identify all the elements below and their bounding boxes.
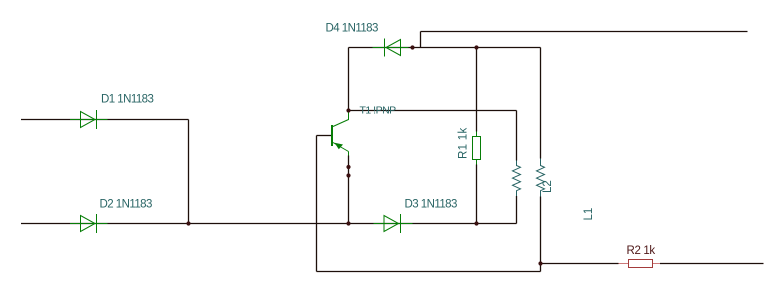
svg-text:R2 1k: R2 1k	[627, 245, 656, 257]
wire: D1 net horizontal y=119.5	[21, 32, 764, 272]
wire: base net vertical x=316.5	[316, 136, 318, 272]
diode D1	[70, 110, 108, 129]
svg-text:D2 1N1183: D2 1N1183	[100, 199, 153, 211]
diode D2	[70, 214, 108, 233]
diode D4 (pointing left)	[373, 39, 409, 57]
wire: top rail y=31.5	[421, 31, 748, 33]
diode D3	[374, 214, 413, 233]
wire: D4 net right vertical down to L1 coil top	[540, 48, 542, 159]
wire: T1 net horizontal y=110.5	[349, 110, 517, 112]
inductor L2 (left coil)	[513, 161, 521, 197]
wire: riser to top rail	[420, 32, 422, 48]
emitter arrow	[335, 143, 344, 150]
junction dot emitter b	[346, 173, 350, 177]
wire: right vertical x=540.5 from bottom net up to L1 coil bottom	[540, 197, 542, 272]
junction dot emitter bottom	[346, 221, 350, 225]
wire: base net bottom horizontal y=271.5	[317, 271, 541, 273]
resistor R1	[473, 132, 481, 165]
wire: R2 net left segment	[541, 263, 619, 265]
junction dot R1 top	[474, 45, 478, 49]
resistor R2 (highlighted red)	[619, 263, 661, 265]
svg-text:L1: L1	[583, 208, 595, 221]
wire: main bottom net turn up to L2 coil bottom	[516, 196, 518, 224]
inductor L1 (right coil)	[537, 159, 545, 197]
wire: R1 top vertical	[476, 48, 478, 132]
base bar	[331, 125, 333, 146]
svg-text:D3 1N1183: D3 1N1183	[405, 199, 458, 211]
wire: T1 base wire	[317, 135, 332, 137]
junction dot D4 anode	[410, 45, 414, 49]
wire: R1 bottom vertical	[476, 165, 478, 224]
svg-text:D4 1N1183: D4 1N1183	[326, 23, 379, 35]
wire: D4 net horizontal y=47.5	[349, 47, 541, 49]
collector pin	[333, 111, 349, 127]
emitter pin	[348, 152, 350, 156]
wire: R2 net right segment	[660, 263, 764, 265]
svg-text:R1 1k: R1 1k	[458, 127, 470, 159]
junction dot T1 collector	[346, 108, 350, 112]
junction dot D1/D2	[186, 221, 190, 225]
junction dot R2 left	[538, 261, 542, 265]
transistor T1 (PNP)	[332, 111, 349, 156]
svg-text:D1 1N1183: D1 1N1183	[101, 94, 154, 106]
junction dot emitter a	[346, 165, 350, 169]
wire: D4 net left vertical down to T1 collector junction	[348, 48, 350, 111]
svg-text:T1 !PNP: T1 !PNP	[360, 105, 397, 117]
wire: D1 net vertical x=188.5	[188, 120, 190, 224]
wire: T1 emitter net down to bottom net	[348, 156, 350, 224]
emitter diagonal	[333, 143, 349, 152]
wire: main bottom net y=223.5	[21, 223, 517, 225]
wire: T1 net vertical down to L2 coil top	[516, 111, 518, 161]
junction dot R1 bottom	[474, 221, 478, 225]
